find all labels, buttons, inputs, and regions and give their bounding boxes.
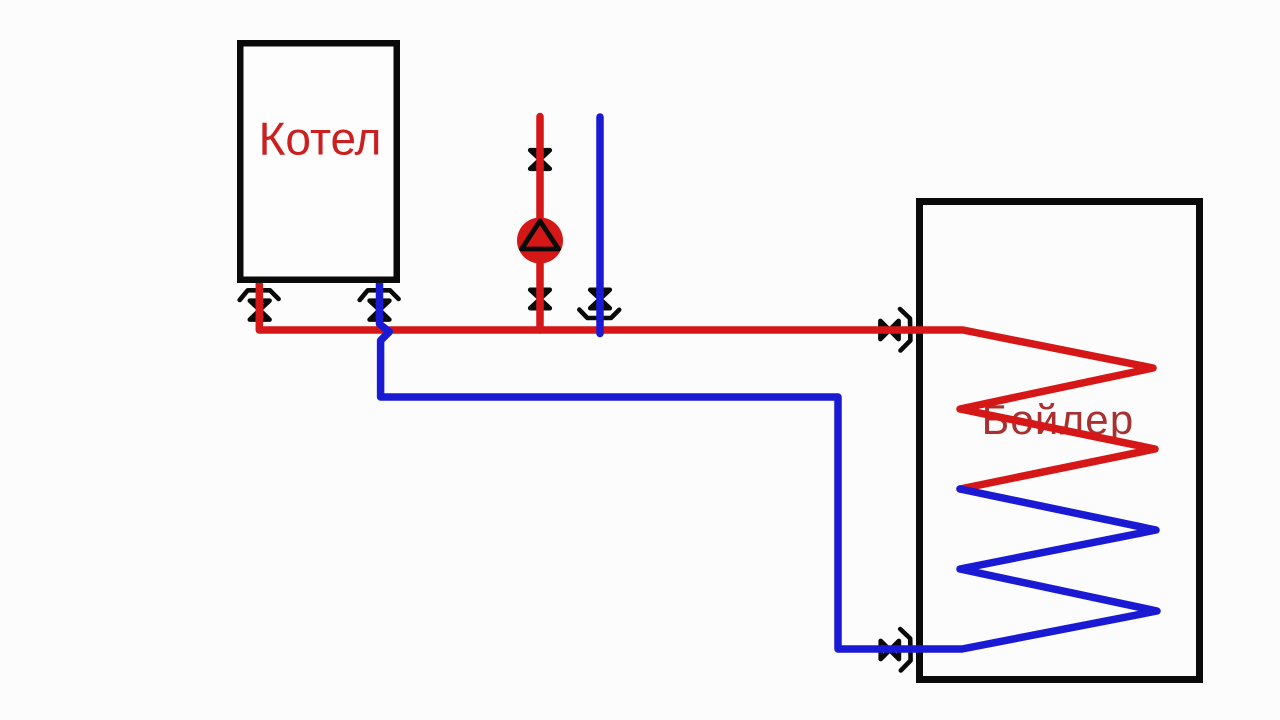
svg-text:Котел: Котел — [259, 113, 382, 165]
wire: blue return pipe (cold half of coil, back to boiler with crossing jog) — [380, 276, 1158, 649]
wire: blue feed branch vertical — [596, 117, 604, 334]
wire: red pump branch vertical — [536, 117, 544, 331]
valve V4 (below pump) — [530, 290, 550, 308]
wire: red supply pipe (boiler to tank coil, hot half of coil) — [259, 276, 1155, 489]
tank (Бойлер) vessel rectangle — [920, 202, 1200, 680]
valve V3 (above pump) — [530, 150, 550, 169]
boiler (Котел) rectangle — [240, 43, 397, 280]
valve V6 with union (tank hot inlet) — [880, 309, 910, 351]
valve V2 with union (blue boiler inlet) — [360, 290, 399, 319]
valve V5 with strainer cup (blue feed) — [579, 290, 619, 318]
valve V7 with union (tank cold outlet) — [881, 629, 911, 671]
valve V1 with union (red boiler outlet) — [240, 290, 279, 319]
pump U1 (circle with triangle) — [517, 218, 563, 264]
